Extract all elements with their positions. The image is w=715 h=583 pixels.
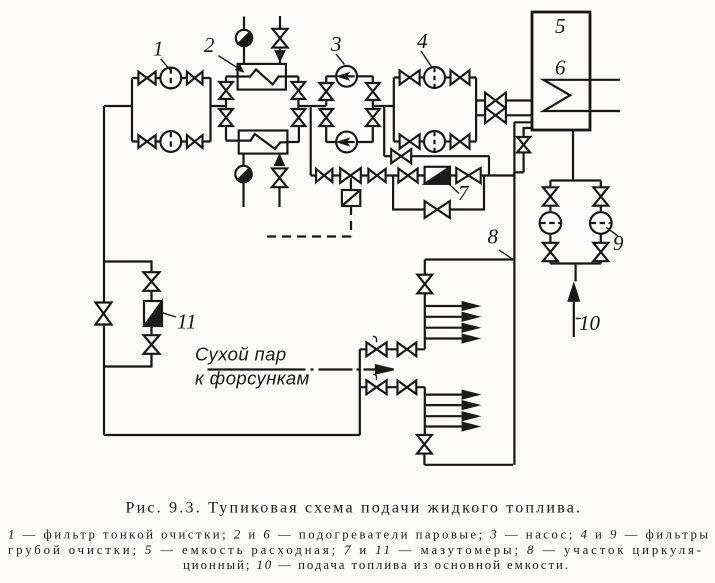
valve on upper branch xyxy=(398,343,417,357)
label 2 xyxy=(204,33,215,57)
svg-text:1 — фильтр тонкой очистки; 2 и: 1 — фильтр тонкой очистки; 2 и 6 — подог… xyxy=(8,528,708,542)
label 4 leader xyxy=(421,51,432,68)
control valve on upper branch with handle xyxy=(366,336,386,356)
filter F9 right: circle with dashed horizontal line xyxy=(590,212,612,234)
valve V1a (filter 1 top-left) xyxy=(138,72,155,85)
label 5 xyxy=(555,14,566,38)
svg-text:2: 2 xyxy=(204,33,215,57)
valve V9d (right-bottom) xyxy=(593,243,608,261)
valve M-C on meter line xyxy=(368,169,385,182)
filter F1 bottom: circle with dashed vertical line xyxy=(160,131,181,152)
valve V1b (filter 1 top-right) xyxy=(187,72,203,85)
label 1 xyxy=(153,37,164,61)
steam arrow head xyxy=(376,365,394,373)
valve V3c (pump riser right-top) xyxy=(366,83,380,100)
steam supply dash-dot line xyxy=(208,368,378,370)
label 11 leader xyxy=(162,313,176,317)
valve V11a xyxy=(144,272,160,291)
meter line (y=175.5) from drop to circulation riser xyxy=(311,174,515,176)
burner arrow 1 xyxy=(425,302,478,310)
valve on outlet row 2 xyxy=(485,108,506,124)
valve M-E on meter line xyxy=(456,168,480,183)
burner arrow 5 xyxy=(425,391,478,399)
svg-text:ционный; 10 — подача топлива и: ционный; 10 — подача топлива из основной… xyxy=(183,558,568,572)
supply arrow 10 (from main storage) xyxy=(569,285,580,338)
condensate pot top heater: half-filled circle xyxy=(236,30,252,46)
label 6 xyxy=(555,56,566,80)
label 1 leader xyxy=(161,59,171,70)
meter 11 branch wires xyxy=(104,262,152,367)
valve V9b (left-bottom) xyxy=(543,243,558,261)
pump P3 top: circle with left arrow xyxy=(336,66,357,87)
upper branch wire from steam riser xyxy=(360,348,425,350)
label 3 xyxy=(330,32,342,56)
tank 5 rectangle xyxy=(532,12,590,130)
steam riser xyxy=(359,349,361,435)
valve V4a (filter 4 top-left) xyxy=(400,70,420,84)
wire: drop from heater-pump junction to meter line xyxy=(310,106,312,176)
valve V2c (heater column right-top) xyxy=(292,82,306,99)
bypass row under group 4 xyxy=(384,156,489,175)
valve M-D on meter line xyxy=(398,169,417,183)
valve on bypass row xyxy=(391,149,411,163)
valve V9a (left-top) xyxy=(543,187,558,205)
wire: tee down to bypass row xyxy=(383,106,385,156)
valve V3b (pump riser left-bottom) xyxy=(319,109,333,126)
condensate pot top heater: stem xyxy=(243,17,245,64)
valve V3d (pump riser right-bottom) xyxy=(366,109,380,126)
valve on upper header xyxy=(417,275,432,294)
valve V4b (filter 4 top-right) xyxy=(451,70,470,84)
valve V2a (heater column left-top) xyxy=(219,82,233,99)
svg-text:1: 1 xyxy=(153,37,164,61)
svg-text:7: 7 xyxy=(458,181,470,205)
valve on lower branch xyxy=(398,380,417,394)
legend line 3 xyxy=(183,558,568,572)
valve V4d (filter 4 bottom-right) xyxy=(451,134,470,148)
valve V2b (heater column left-bottom) xyxy=(219,109,233,126)
node label: Сухой пар xyxy=(195,344,287,365)
burner arrow 7 xyxy=(425,412,478,420)
pump P3 bottom: circle with left arrow xyxy=(336,132,357,153)
filter group 9 left branch wires xyxy=(549,181,551,264)
valve on meter bypass xyxy=(425,201,450,218)
burner arrow 6 xyxy=(425,401,478,409)
steam valve below bottom heater with up arrow xyxy=(272,154,287,207)
valve on tank drain xyxy=(517,137,530,152)
valve on outlet row 1 xyxy=(485,93,506,109)
svg-text:11: 11 xyxy=(177,310,196,334)
label 9 leader xyxy=(606,227,618,236)
svg-text:к форсункам: к форсункам xyxy=(195,368,310,389)
svg-text:4: 4 xyxy=(417,29,428,53)
label 7 leader xyxy=(450,185,460,194)
heater U2 bottom rectangle xyxy=(239,131,288,154)
filter F4 top: circle with dashed vertical line xyxy=(424,67,445,88)
svg-text:3: 3 xyxy=(330,32,342,56)
valve V4c (filter 4 bottom-left) xyxy=(400,134,420,148)
lower branch wire from steam riser xyxy=(360,386,425,388)
circulation riser (line 8) xyxy=(513,122,515,465)
wire: tank to circulation riser (upper tap) xyxy=(514,121,532,123)
label 10 xyxy=(579,311,601,335)
burner arrow 2 xyxy=(425,313,478,321)
filter F1 top: circle with dashed vertical line xyxy=(160,68,181,89)
filter F4 bottom: circle with dashed vertical line xyxy=(424,131,445,152)
condensate pot bottom heater: stem xyxy=(242,154,244,207)
pump group 3 frame xyxy=(326,76,373,142)
valve V1c (filter 1 bottom-left) xyxy=(138,135,155,148)
valve on lower header xyxy=(417,435,432,454)
filter group 9 top rail xyxy=(550,179,600,181)
valve V9c (right-top) xyxy=(593,187,608,205)
lower burner header riser xyxy=(423,387,426,465)
left return riser xyxy=(103,106,105,435)
wire: filter4 outlet row 1 to tank xyxy=(476,99,532,101)
wire: tank bottom outlet xyxy=(572,130,574,181)
meter 7: rectangle with black lower-right triangle xyxy=(425,167,450,184)
heating coil 6 in tank with external stubs xyxy=(544,80,620,111)
upper burner header riser xyxy=(424,260,426,350)
meter 7 bypass loop xyxy=(393,176,484,210)
svg-text:10: 10 xyxy=(579,311,601,335)
label 3 leader xyxy=(336,54,345,65)
svg-text:Сухой пар: Сухой пар xyxy=(195,344,287,365)
legend line 2 xyxy=(8,543,701,557)
heater U2 bottom flow zigzag xyxy=(239,134,288,149)
manifold top header wire xyxy=(425,258,513,260)
valve M-B on meter line (with strainer stem) xyxy=(340,168,361,183)
bottom return wire xyxy=(104,434,360,436)
manifold bottom wire xyxy=(424,464,513,466)
filter group 9 bottom rail and stub xyxy=(550,264,600,282)
filter group 1 frame (left riser, right riser, top and bottom branches) xyxy=(132,78,211,142)
control valve on lower branch with handle xyxy=(366,374,386,394)
label 7 xyxy=(458,181,470,205)
svg-text:9: 9 xyxy=(613,231,624,255)
svg-text:Рис. 9.3. Тупиковая схема пода: Рис. 9.3. Тупиковая схема подачи жидкого… xyxy=(126,500,581,517)
label 2 leader with arrow xyxy=(218,56,242,72)
heater U2 top rectangle xyxy=(238,64,286,90)
valve V11b xyxy=(144,335,160,354)
label 9 xyxy=(613,231,624,255)
wire: inlet to filter group 1 xyxy=(104,105,132,107)
bypass valve on left riser xyxy=(96,303,112,325)
valve V1d (filter 1 bottom-right) xyxy=(187,135,203,148)
wire: pumps to filter group 4 xyxy=(373,105,394,107)
heater U2 top flow zigzag xyxy=(238,70,286,85)
heater left column wires xyxy=(226,77,239,141)
svg-text:грубой очистки; 5 — емкость ра: грубой очистки; 5 — емкость расходная; 7… xyxy=(8,543,701,557)
svg-text:6: 6 xyxy=(555,56,566,80)
steam valve above top heater with down arrow xyxy=(272,16,287,64)
wire: group1 to heater column xyxy=(211,105,227,107)
burner arrow 4 xyxy=(425,335,478,343)
label 4 xyxy=(417,29,428,53)
valve V2d (heater column right-bottom) xyxy=(292,109,306,126)
svg-text:5: 5 xyxy=(555,14,566,38)
svg-text:8: 8 xyxy=(488,225,499,249)
heater right column wires xyxy=(286,77,326,143)
label 10 tick xyxy=(576,318,581,320)
strainer square with diagonal xyxy=(342,190,360,206)
valve V3a (pump riser left-top) xyxy=(319,83,333,100)
condensate pot bottom heater: half-filled circle xyxy=(235,166,251,183)
meter 11: rectangle with black lower-right triangle xyxy=(144,301,162,326)
caption xyxy=(126,500,581,517)
filter group 9 right branch wires xyxy=(600,181,602,264)
dashed drain line from strainer xyxy=(263,206,351,237)
burner arrow 3 xyxy=(425,324,478,332)
filter group 4 frame xyxy=(394,78,476,142)
burner arrow 8 xyxy=(425,423,478,431)
valve M-A on meter line xyxy=(316,169,332,182)
label 11 xyxy=(177,310,196,334)
tank drain with valve xyxy=(514,128,532,172)
filter F9 left: circle with dashed horizontal line xyxy=(540,212,562,234)
node label: к форсункам xyxy=(195,368,310,389)
label 8 xyxy=(488,225,499,249)
strainer stem xyxy=(350,178,352,190)
legend line 1 xyxy=(8,528,708,542)
label 8 leader xyxy=(499,250,513,260)
wire: filter4 outlet row 2 to tank xyxy=(476,114,532,116)
